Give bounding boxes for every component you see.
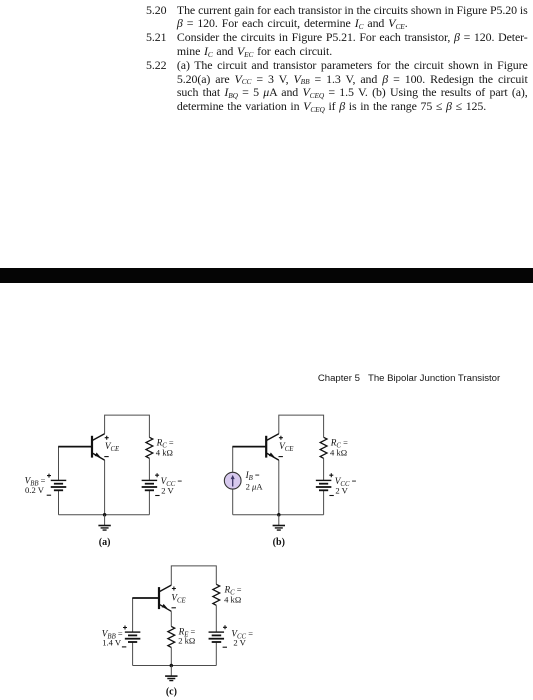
svg-text:2 kΩ: 2 kΩ — [178, 635, 195, 645]
svg-text:(c): (c) — [166, 687, 177, 698]
svg-text:2 V: 2 V — [161, 486, 174, 496]
svg-text:IB =: IB = — [245, 470, 260, 482]
svg-text:VCE: VCE — [105, 441, 120, 453]
svg-text:2 μA: 2 μA — [246, 481, 264, 491]
svg-text:(a): (a) — [99, 537, 111, 548]
svg-text:2 V: 2 V — [335, 486, 348, 496]
svg-text:VCE: VCE — [171, 592, 186, 604]
svg-text:0.2 V: 0.2 V — [25, 485, 45, 495]
svg-text:4 kΩ: 4 kΩ — [156, 447, 173, 457]
svg-text:2 V: 2 V — [233, 638, 246, 648]
svg-text:4 kΩ: 4 kΩ — [224, 595, 241, 605]
svg-text:(b): (b) — [273, 537, 285, 548]
svg-text:1.4 V: 1.4 V — [102, 638, 122, 648]
svg-text:VCE: VCE — [279, 441, 294, 453]
svg-text:4 kΩ: 4 kΩ — [330, 447, 347, 457]
